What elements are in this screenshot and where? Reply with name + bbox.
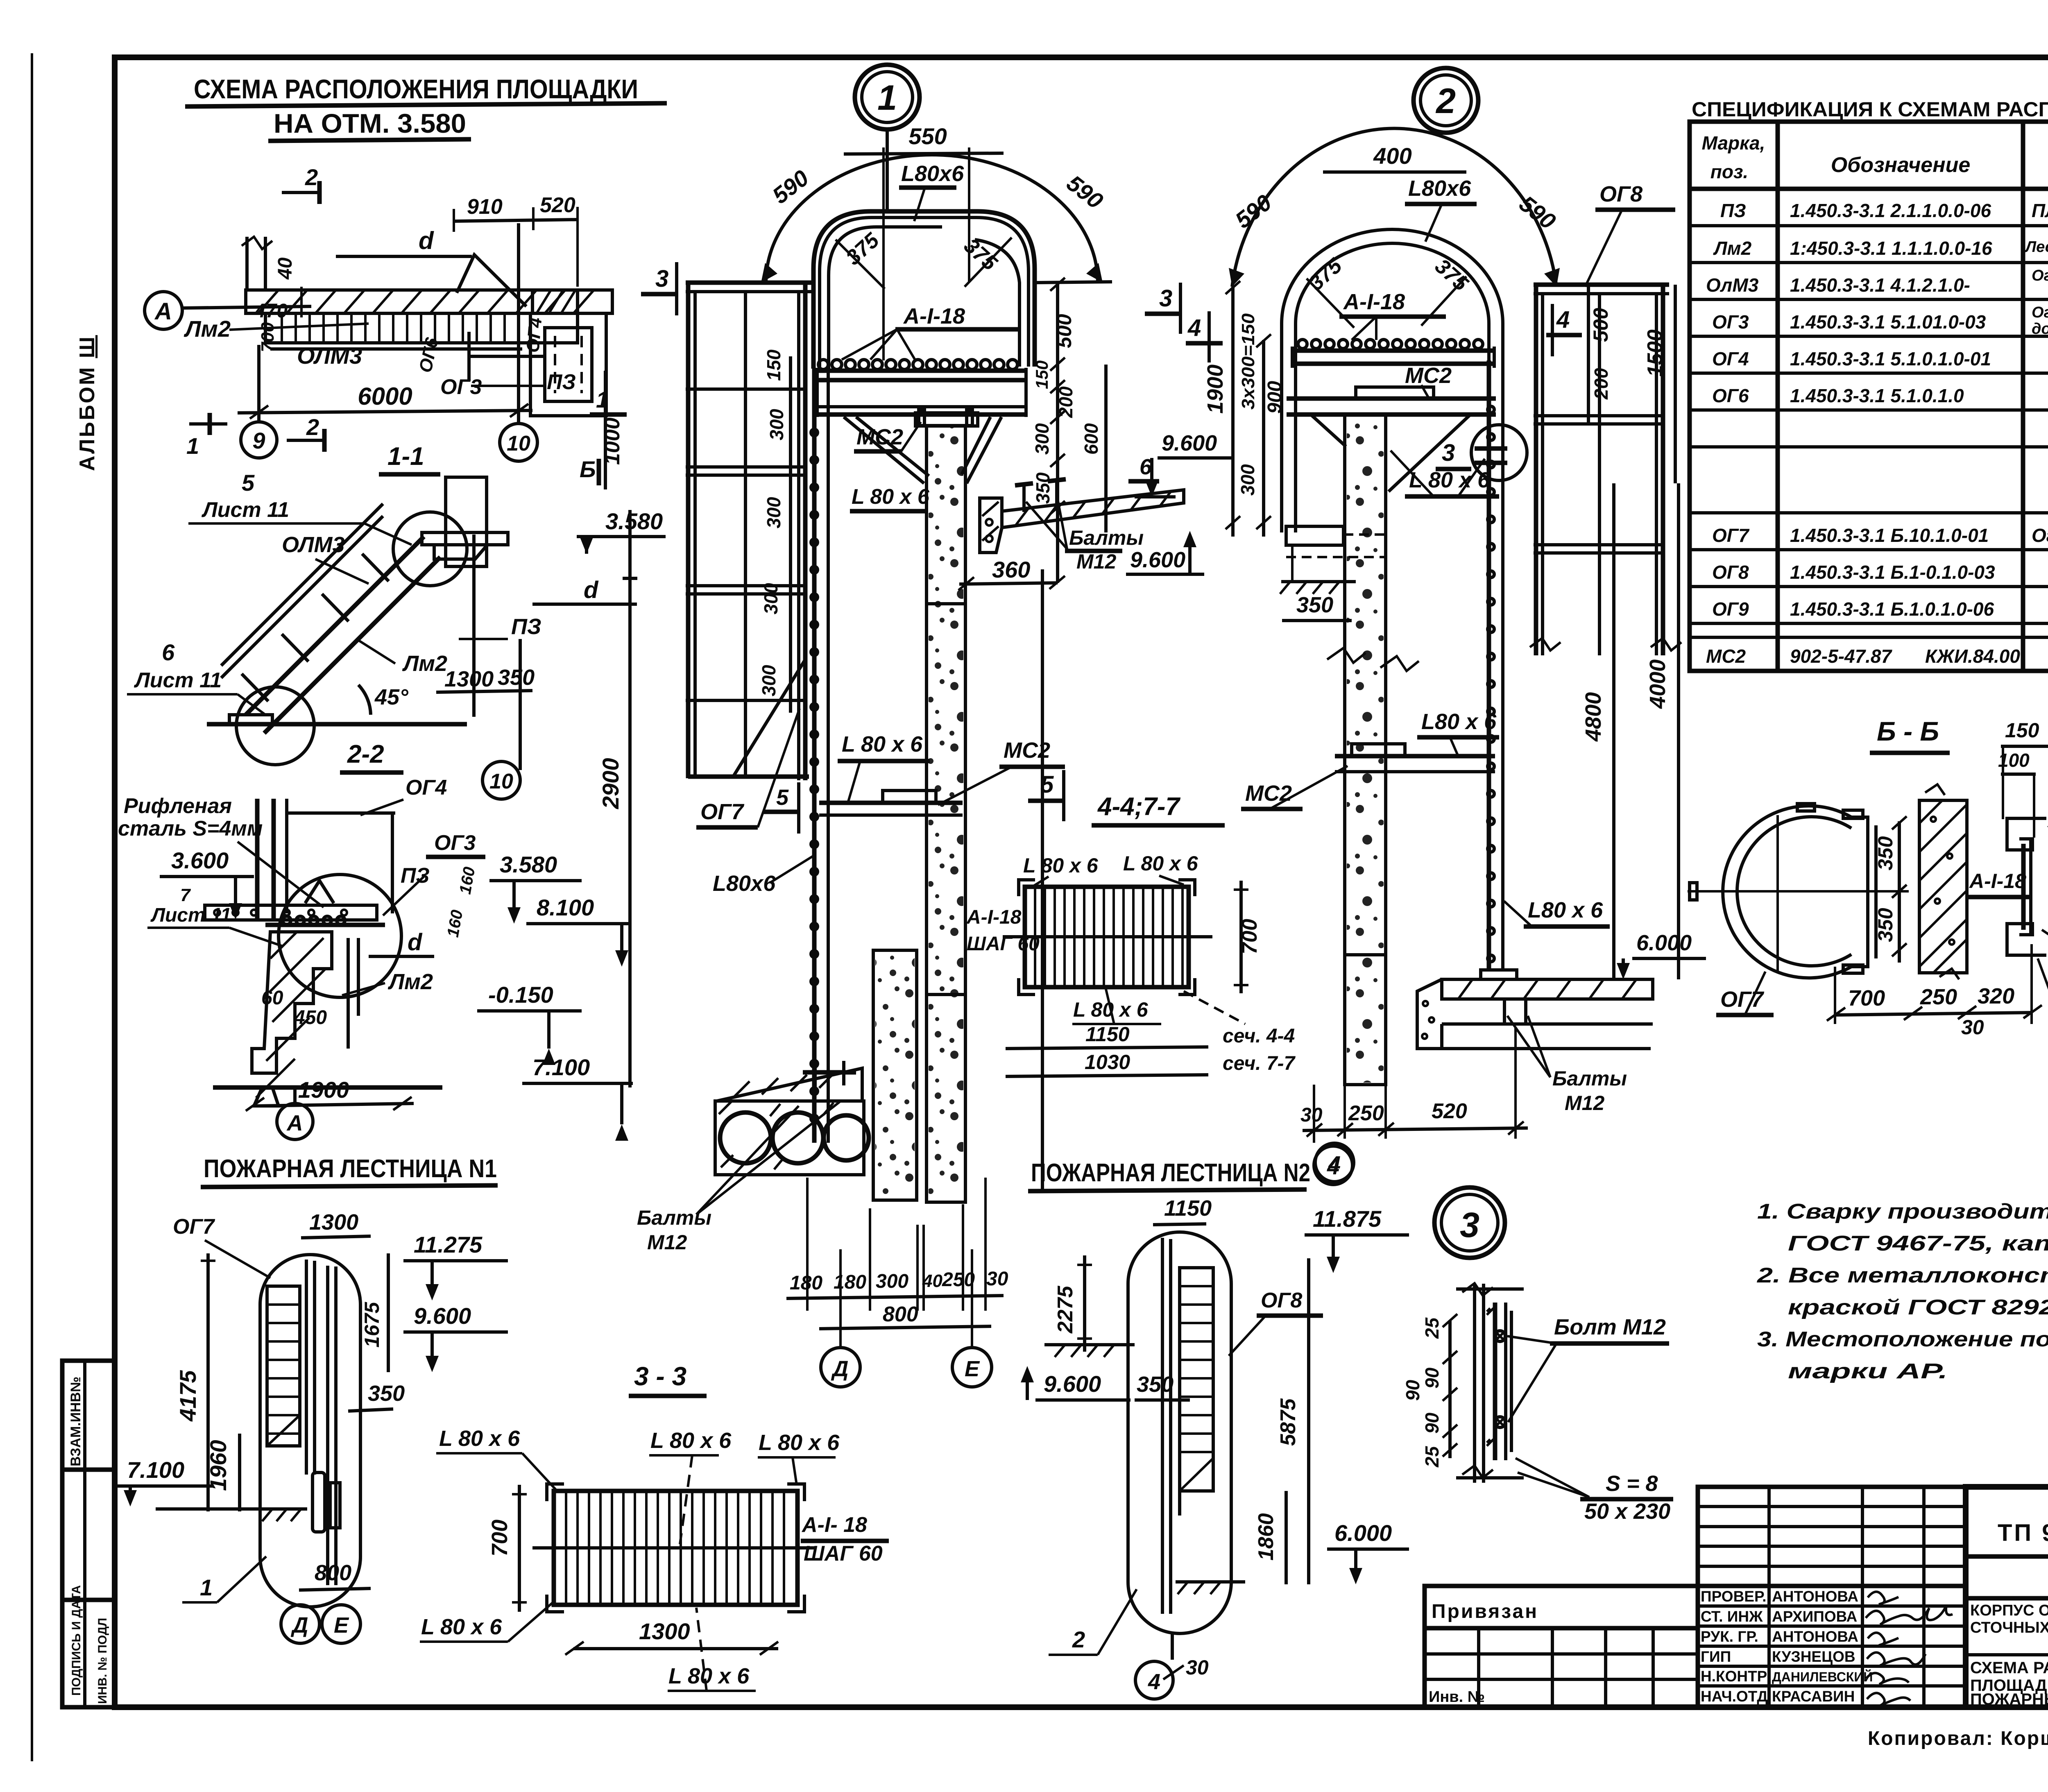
svg-text:1300: 1300 <box>309 1210 358 1235</box>
svg-text:Н.КОНТР: Н.КОНТР <box>1701 1668 1767 1685</box>
handrail <box>221 504 383 666</box>
svg-text:А-I-18: А-I-18 <box>1969 870 2026 893</box>
detail circle <box>279 874 401 997</box>
svg-text:ОГ7: ОГ7 <box>1712 525 1750 546</box>
svg-text:2: 2 <box>1072 1627 1085 1652</box>
svg-text:150: 150 <box>763 349 784 381</box>
ELEVATION 2 <box>1203 68 1706 1182</box>
svg-text:9.600: 9.600 <box>1044 1371 1101 1397</box>
svg-text:ШАГ 60: ШАГ 60 <box>804 1542 883 1565</box>
svg-text:1.450.3-3.1 Б.1-0.1.0-03: 1.450.3-3.1 Б.1-0.1.0-03 <box>1790 562 1995 583</box>
platform plate with hooks <box>265 923 385 927</box>
ladder grid <box>267 1286 300 1446</box>
breaks <box>1462 1283 1493 1296</box>
svg-text:700: 700 <box>258 322 278 352</box>
ELEVATION 1 <box>590 65 1233 1387</box>
wall verticals <box>255 799 260 922</box>
svg-text:М12: М12 <box>647 1231 687 1254</box>
svg-text:ОГ4: ОГ4 <box>1712 348 1749 369</box>
svg-text:Лист 11: Лист 11 <box>134 668 222 692</box>
left dims <box>1448 1321 1452 1458</box>
svg-text:L 80 x 6: L 80 x 6 <box>1409 468 1490 492</box>
MC2 cap <box>915 413 978 426</box>
svg-text:360: 360 <box>992 557 1030 582</box>
svg-text:180: 180 <box>790 1272 822 1294</box>
capsule <box>260 1255 360 1607</box>
svg-text:300: 300 <box>760 583 782 614</box>
svg-text:9.600: 9.600 <box>1162 431 1217 455</box>
svg-text:L 80 x 6: L 80 x 6 <box>842 732 923 757</box>
svg-text:6: 6 <box>1140 455 1152 479</box>
svg-text:Е: Е <box>334 1613 349 1638</box>
concrete column <box>1345 415 1386 1085</box>
svg-text:1150: 1150 <box>1164 1196 1212 1221</box>
support slants <box>1311 415 1346 446</box>
svg-text:1860: 1860 <box>1254 1513 1278 1561</box>
platform hooks <box>1298 340 1483 349</box>
ground hatch left at 9.600 <box>1044 1343 1135 1346</box>
svg-text:ОГ7: ОГ7 <box>1720 987 1765 1012</box>
concrete column <box>927 426 965 1202</box>
svg-text:А: А <box>286 1111 303 1135</box>
svg-text:1030: 1030 <box>1085 1051 1130 1074</box>
svg-text:1900: 1900 <box>1203 365 1228 414</box>
svg-text:Ограждение ОГС-18.4: Ограждение ОГС-18.4 <box>2032 525 2048 546</box>
svg-text:350: 350 <box>1874 836 1897 870</box>
svg-text:700: 700 <box>1848 986 1885 1010</box>
svg-text:ОГ4: ОГ4 <box>523 317 546 353</box>
signature grid <box>1698 1487 1966 1707</box>
right C-frame <box>1866 825 1869 958</box>
svg-text:сеч. 4-4: сеч. 4-4 <box>1223 1025 1295 1047</box>
dim 1300 350 <box>436 691 532 692</box>
svg-text:8.100: 8.100 <box>537 895 594 920</box>
svg-text:3.580: 3.580 <box>605 508 663 534</box>
header <box>1690 187 2048 191</box>
break marks on column <box>1327 648 1366 663</box>
labels L80x6 <box>421 1426 840 1688</box>
svg-text:50 x 230: 50 x 230 <box>1584 1499 1670 1524</box>
svg-text:4-4;7-7: 4-4;7-7 <box>1097 793 1180 821</box>
svg-text:ОГ6: ОГ6 <box>1712 385 1749 406</box>
svg-text:d: d <box>408 929 423 956</box>
svg-text:1:450.3-3.1 1.1.1.0.0-16: 1:450.3-3.1 1.1.1.0.0-16 <box>1790 238 1992 259</box>
svg-text:10: 10 <box>489 770 513 793</box>
wall strip <box>1919 800 1967 973</box>
svg-text:2: 2 <box>306 414 319 440</box>
svg-text:11.275: 11.275 <box>414 1232 483 1257</box>
svg-text:4000: 4000 <box>1645 659 1670 709</box>
svg-text:2275: 2275 <box>1053 1285 1077 1334</box>
svg-text:Ограждение площа-: Ограждение площа- <box>2032 304 2048 321</box>
svg-text:10: 10 <box>507 432 530 455</box>
svg-text:3: 3 <box>1159 285 1172 312</box>
6000 dim <box>238 410 532 413</box>
bottom dims <box>1314 1028 1516 1143</box>
svg-text:500: 500 <box>1053 314 1076 348</box>
svg-text:ГОСТ 9467-75, катет шва = 6: ГОСТ 9467-75, катет шва = 6 мм . <box>1788 1232 2048 1255</box>
left bottom bracket <box>1286 526 1343 545</box>
right platform box <box>532 290 578 313</box>
svg-text:L 80 x 6: L 80 x 6 <box>1123 852 1198 875</box>
svg-text:3: 3 <box>1460 1205 1479 1245</box>
svg-text:4: 4 <box>1327 1155 1339 1179</box>
svg-text:ОЛМ3: ОЛМ3 <box>297 343 362 369</box>
detail circles <box>393 512 467 586</box>
svg-text:25: 25 <box>1421 1445 1443 1468</box>
svg-text:ОГ8: ОГ8 <box>1261 1289 1302 1312</box>
hoop <box>1282 229 1503 532</box>
svg-text:А-I- 18: А-I- 18 <box>801 1513 867 1537</box>
svg-text:L 80 x 6: L 80 x 6 <box>759 1430 840 1455</box>
capsule <box>1128 1232 1231 1633</box>
svg-text:910: 910 <box>467 195 503 219</box>
DETAIL 3 <box>1402 1187 1673 1524</box>
svg-text:Площадка ПМХШ-15.6: Площадка ПМХШ-15.6 <box>2032 200 2048 221</box>
signatures squiggles <box>1866 1592 1953 1706</box>
svg-text:Болт М12: Болт М12 <box>1554 1315 1666 1339</box>
svg-text:300: 300 <box>766 409 787 440</box>
svg-text:2-2: 2-2 <box>347 740 384 768</box>
2900 vertical dim <box>628 510 632 1087</box>
MC2 beam <box>1287 396 1496 401</box>
ladder grid <box>1180 1268 1213 1491</box>
svg-text:1500: 1500 <box>1643 329 1667 377</box>
svg-text:9.600: 9.600 <box>414 1303 471 1329</box>
inner rails <box>305 1260 308 1475</box>
svg-text:ПЗ: ПЗ <box>511 614 541 639</box>
svg-text:L80x6: L80x6 <box>713 871 776 896</box>
svg-text:90: 90 <box>1402 1380 1423 1401</box>
svg-text:30: 30 <box>1961 1016 1984 1039</box>
svg-text:Лм2: Лм2 <box>387 970 433 994</box>
2900-chain verticals near col <box>1041 569 1044 1193</box>
svg-text:6.000: 6.000 <box>1636 931 1692 955</box>
svg-text:ПОЖАРНАЯ ЛЕСТНИЦА N2: ПОЖАРНАЯ ЛЕСТНИЦА N2 <box>1031 1159 1310 1187</box>
NOTES <box>0 0 0 0</box>
svg-text:1-1: 1-1 <box>387 442 424 471</box>
svg-text:АНТОНОВА: АНТОНОВА <box>1772 1588 1858 1605</box>
sheet outer left edge line <box>31 53 33 1761</box>
svg-text:1. Сварку производить элект: 1. Сварку производить электродами типа Э… <box>1757 1200 2048 1223</box>
svg-text:150: 150 <box>2005 719 2039 742</box>
SECTION 1-1 <box>127 442 666 1087</box>
350 350 dims <box>1898 821 1901 963</box>
svg-text:300: 300 <box>763 497 784 528</box>
MC2 mid bracket <box>819 801 963 805</box>
svg-text:350: 350 <box>1032 472 1053 504</box>
45 deg arc <box>358 685 371 715</box>
svg-text:1900: 1900 <box>298 1077 349 1103</box>
rail posts <box>242 674 268 701</box>
svg-text:М12: М12 <box>1565 1092 1604 1115</box>
svg-text:L80x6: L80x6 <box>1408 176 1471 201</box>
svg-text:марки АР.: марки АР. <box>1788 1359 1948 1383</box>
bottom dims <box>1834 1013 2032 1015</box>
svg-text:М12: М12 <box>1076 550 1116 573</box>
NOTES <box>1757 1200 2048 1383</box>
svg-text:520: 520 <box>1432 1099 1467 1123</box>
svg-text:L80x6: L80x6 <box>901 161 964 186</box>
svg-text:350: 350 <box>1874 908 1897 942</box>
TITLE TOP LEFT <box>185 74 667 141</box>
svg-text:ОГ3: ОГ3 <box>1712 311 1749 333</box>
svg-text:ОГ8: ОГ8 <box>1712 562 1749 583</box>
circled 10 <box>483 761 520 799</box>
svg-text:ПОЖАРНЫЕ ЛЕСТНИЦЫ N 1.2: ПОЖАРНЫЕ ЛЕСТНИЦЫ N 1.2 <box>1970 1690 2048 1708</box>
svg-text:КРАСАВИН: КРАСАВИН <box>1772 1688 1855 1705</box>
svg-text:Д: Д <box>831 1357 849 1381</box>
svg-text:2: 2 <box>305 164 318 190</box>
svg-text:СТОЧНЫХ ВОД С 5 ЦЕНТРИФУГАМН: СТОЧНЫХ ВОД С 5 ЦЕНТРИФУГАМН <box>1970 1619 2048 1636</box>
base line <box>213 1085 442 1090</box>
svg-text:1150: 1150 <box>1085 1023 1130 1046</box>
svg-text:ШАГ 60: ШАГ 60 <box>967 933 1040 955</box>
svg-text:180: 180 <box>834 1271 866 1293</box>
platform hatched strip <box>246 290 612 313</box>
TITLE BLOCK <box>1425 1487 2048 1753</box>
platform hooks <box>818 360 1017 369</box>
svg-text:3. Местоположение пожарных: 3. Местоположение пожарных лестниц см. ч… <box>1757 1328 2048 1351</box>
top column <box>446 477 487 566</box>
svg-text:А: А <box>154 298 172 325</box>
svg-text:3: 3 <box>1442 440 1455 466</box>
svg-text:7.100: 7.100 <box>532 1054 590 1080</box>
svg-text:Лм2: Лм2 <box>1713 238 1752 259</box>
svg-text:1: 1 <box>877 78 897 118</box>
left railing OG7 <box>686 281 815 285</box>
svg-text:L 80 x 6: L 80 x 6 <box>1023 854 1099 877</box>
svg-text:АЛЬБОМ Ш: АЛЬБОМ Ш <box>75 335 99 471</box>
svg-text:ОГ7: ОГ7 <box>173 1215 215 1239</box>
svg-text:Марка,: Марка, <box>1702 132 1765 154</box>
svg-text:МС2: МС2 <box>1405 363 1452 388</box>
svg-text:30: 30 <box>1300 1104 1323 1126</box>
svg-text:11.875: 11.875 <box>1313 1206 1382 1232</box>
svg-text:3.580: 3.580 <box>500 852 557 877</box>
svg-text:1.450.3-3.1 5.1.0.1.0-01: 1.450.3-3.1 5.1.0.1.0-01 <box>1790 348 1991 369</box>
svg-text:350: 350 <box>1296 593 1333 617</box>
SECTION 2-2 <box>118 740 633 1141</box>
triangle pointer <box>457 255 526 306</box>
svg-text:док ОГПМХЭб-10.15: док ОГПМХЭб-10.15 <box>2032 320 2048 338</box>
svg-text:4175: 4175 <box>175 1370 201 1422</box>
svg-text:КУЗНЕЦОВ: КУЗНЕЦОВ <box>1772 1648 1855 1665</box>
svg-text:АРХИПОВА: АРХИПОВА <box>1772 1608 1857 1625</box>
svg-text:30: 30 <box>1186 1656 1209 1679</box>
svg-text:НАЧ.ОТД: НАЧ.ОТД <box>1701 1688 1768 1705</box>
ladder shoe <box>1481 970 1517 979</box>
svg-text:250: 250 <box>1920 985 1957 1009</box>
svg-text:L 80 x 6: L 80 x 6 <box>852 485 930 509</box>
svg-text:ОлМ3: ОлМ3 <box>1706 274 1759 296</box>
og4 rail top <box>287 811 395 815</box>
platform beam <box>422 532 508 545</box>
svg-text:1.450.3-3.1 Б.10.1.0-01: 1.450.3-3.1 Б.10.1.0-01 <box>1790 525 1989 546</box>
svg-text:ПЗ: ПЗ <box>547 370 576 394</box>
rows <box>1706 200 2048 667</box>
svg-text:L80 x 6: L80 x 6 <box>1528 898 1603 922</box>
hoop <box>813 211 1035 369</box>
svg-text:2: 2 <box>1435 82 1456 121</box>
svg-text:ОГ9: ОГ9 <box>1712 598 1749 620</box>
ladder stringers <box>812 369 817 1143</box>
ground hatch bottom right <box>1176 1580 1245 1584</box>
top dims 910 520 <box>454 220 578 221</box>
svg-text:60: 60 <box>261 987 283 1009</box>
svg-text:350: 350 <box>498 665 535 690</box>
axis circles 9 and 10 <box>241 422 277 458</box>
row lines <box>1690 224 2048 227</box>
svg-text:90: 90 <box>1421 1367 1443 1389</box>
svg-text:КЖИ.84.00: КЖИ.84.00 <box>1925 646 2020 667</box>
stamp boxes bottom left <box>62 1361 115 1707</box>
svg-text:6.000: 6.000 <box>1334 1520 1392 1546</box>
svg-text:2. Все металлоконструкции о: 2. Все металлоконструкции окрасить масля… <box>1757 1264 2048 1287</box>
svg-text:АНТОНОВА: АНТОНОВА <box>1772 1628 1858 1645</box>
svg-text:200: 200 <box>1055 386 1076 418</box>
svg-text:150: 150 <box>1032 360 1051 389</box>
svg-text:1: 1 <box>200 1575 213 1600</box>
svg-text:3 - 3: 3 - 3 <box>634 1362 686 1391</box>
svg-text:4: 4 <box>1148 1670 1160 1694</box>
svg-text:1.450.3-3.1 5.1.01.0-03: 1.450.3-3.1 5.1.01.0-03 <box>1790 311 1986 333</box>
svg-text:25: 25 <box>1421 1317 1443 1339</box>
right mid bracket with bolts <box>1002 490 1184 528</box>
svg-text:-0.150: -0.150 <box>488 982 553 1008</box>
svg-text:ПЗ: ПЗ <box>1720 200 1746 221</box>
project name <box>1970 1602 2048 1654</box>
svg-text:6: 6 <box>162 639 175 665</box>
svg-text:40: 40 <box>274 257 296 280</box>
svg-text:90: 90 <box>1421 1412 1443 1434</box>
svg-text:1960: 1960 <box>205 1440 231 1491</box>
svg-text:сеч. 7-7: сеч. 7-7 <box>1223 1053 1296 1074</box>
svg-text:350: 350 <box>368 1381 405 1406</box>
svg-text:поз.: поз. <box>1710 161 1748 182</box>
svg-text:1.450.3-3.1 4.1.2.1.0-: 1.450.3-3.1 4.1.2.1.0- <box>1790 274 1970 296</box>
table frame <box>1690 122 2048 671</box>
svg-text:d: d <box>584 577 599 603</box>
svg-text:800: 800 <box>315 1561 351 1585</box>
PLAN VIEW <box>145 164 612 461</box>
svg-text:4: 4 <box>1187 315 1201 341</box>
svg-text:сталь S=4мм: сталь S=4мм <box>118 817 263 840</box>
svg-text:СТ. ИНЖ: СТ. ИНЖ <box>1701 1608 1763 1625</box>
svg-text:3x300=150: 3x300=150 <box>1238 313 1258 410</box>
svg-text:40: 40 <box>922 1271 942 1291</box>
left attach box <box>1425 1586 1698 1707</box>
svg-text:4: 4 <box>1556 306 1570 333</box>
svg-text:СПЕЦИФИКАЦИЯ К СХЕМАМ РАСПОЛОЖ: СПЕЦИФИКАЦИЯ К СХЕМАМ РАСПОЛОЖЕНИЯ ПЛОЩА… <box>1692 98 2048 121</box>
svg-text:ПОДПИСЬ И ДАТА: ПОДПИСЬ И ДАТА <box>70 1585 83 1696</box>
svg-text:1300: 1300 <box>444 667 494 691</box>
svg-text:7: 7 <box>180 885 191 905</box>
svg-text:900: 900 <box>1264 381 1286 414</box>
bottom shoe <box>207 722 467 727</box>
SECTION B-B <box>1688 707 2048 1106</box>
svg-text:902-5-47.87: 902-5-47.87 <box>1790 646 1892 667</box>
right railing OG8 <box>1534 283 1669 287</box>
svg-text:ОЛМ3: ОЛМ3 <box>282 532 344 557</box>
dim arc <box>1232 128 1556 287</box>
svg-text:СХЕМА РАСПОЛОЖЕНИЯ: СХЕМА РАСПОЛОЖЕНИЯ <box>1970 1659 2048 1677</box>
svg-text:краской ГОСТ 8292-85 в 2 сло: краской ГОСТ 8292-85 в 2 слоя по грунтов… <box>1788 1296 2048 1319</box>
svg-text:Е: Е <box>965 1357 980 1381</box>
SECTION 3-3 <box>420 1362 889 1691</box>
svg-text:320: 320 <box>1978 984 2014 1008</box>
svg-text:НА ОТМ. 3.580: НА ОТМ. 3.580 <box>274 108 466 138</box>
svg-text:ОГ3: ОГ3 <box>434 831 476 855</box>
svg-text:5: 5 <box>776 785 789 810</box>
channel detail <box>2007 818 2046 850</box>
slab with circles <box>717 1068 862 1101</box>
svg-text:Балты: Балты <box>1552 1067 1627 1090</box>
second pier <box>873 950 917 1200</box>
svg-text:ПОЖАРНАЯ ЛЕСТНИЦА N1: ПОЖАРНАЯ ЛЕСТНИЦА N1 <box>204 1155 497 1183</box>
svg-text:470: 470 <box>254 300 288 322</box>
svg-text:А-I-18: А-I-18 <box>1343 290 1405 314</box>
svg-text:1: 1 <box>596 387 609 412</box>
bolts <box>1495 1331 1505 1341</box>
svg-text:Лм2: Лм2 <box>184 316 231 342</box>
ladder stringers right <box>1487 360 1491 970</box>
svg-text:45°: 45° <box>374 685 408 709</box>
SPEC TABLE <box>1690 57 2048 671</box>
svg-text:Лм2: Лм2 <box>402 651 447 676</box>
svg-text:ИНВ. № ПОДЛ: ИНВ. № ПОДЛ <box>96 1618 109 1704</box>
svg-text:300: 300 <box>758 665 779 696</box>
svg-text:5875: 5875 <box>1276 1398 1300 1446</box>
axis A circle <box>145 292 182 329</box>
svg-text:А-I-18: А-I-18 <box>903 304 965 328</box>
treads row <box>265 313 578 343</box>
svg-text:550: 550 <box>908 123 947 149</box>
bars <box>566 1491 784 1605</box>
svg-text:6000: 6000 <box>358 383 412 410</box>
svg-text:800: 800 <box>883 1303 918 1326</box>
svg-text:500: 500 <box>1589 308 1612 342</box>
LADDER N2 <box>1021 1146 1409 1699</box>
svg-text:d: d <box>419 227 434 254</box>
svg-text:450: 450 <box>294 1007 327 1029</box>
svg-text:300: 300 <box>1237 464 1258 496</box>
svg-text:9: 9 <box>252 428 265 453</box>
LADDER N1 <box>117 1155 508 1643</box>
svg-text:L 80 x 6: L 80 x 6 <box>650 1428 732 1453</box>
svg-text:ТП 902-5-47.87: ТП 902-5-47.87 <box>1998 1520 2048 1546</box>
svg-text:Лист 11: Лист 11 <box>150 904 231 926</box>
svg-text:1.450.3-3.1 5.1.0.1.0: 1.450.3-3.1 5.1.0.1.0 <box>1790 385 1964 406</box>
svg-text:S = 8: S = 8 <box>1606 1471 1658 1496</box>
svg-text:ГИП: ГИП <box>1701 1648 1731 1665</box>
circled 1 axis <box>855 65 920 129</box>
svg-text:L 80 x 6: L 80 x 6 <box>421 1615 502 1639</box>
svg-text:L 80 x 6: L 80 x 6 <box>439 1426 520 1451</box>
svg-text:5: 5 <box>242 470 255 496</box>
hoop arc <box>1723 806 1868 978</box>
svg-text:200: 200 <box>1590 368 1612 400</box>
svg-text:9.600: 9.600 <box>1130 548 1185 572</box>
wall stub above <box>245 237 249 290</box>
svg-text:Обозначение: Обозначение <box>1831 153 1971 177</box>
svg-text:КОРПУС ОБЕЗВОЖИВАНИЯ ОСАДКА: КОРПУС ОБЕЗВОЖИВАНИЯ ОСАДКА <box>1970 1602 2048 1619</box>
svg-text:А-I-18: А-I-18 <box>966 906 1022 928</box>
svg-text:ВЗАМ.ИНВ№: ВЗАМ.ИНВ№ <box>68 1377 84 1466</box>
ground hatch at 7.100 <box>156 1507 307 1511</box>
svg-text:Лестничный марш МЛХШ45·36в: Лестничный марш МЛХШ45·36в <box>2024 238 2048 256</box>
svg-text:Б: Б <box>580 456 596 482</box>
